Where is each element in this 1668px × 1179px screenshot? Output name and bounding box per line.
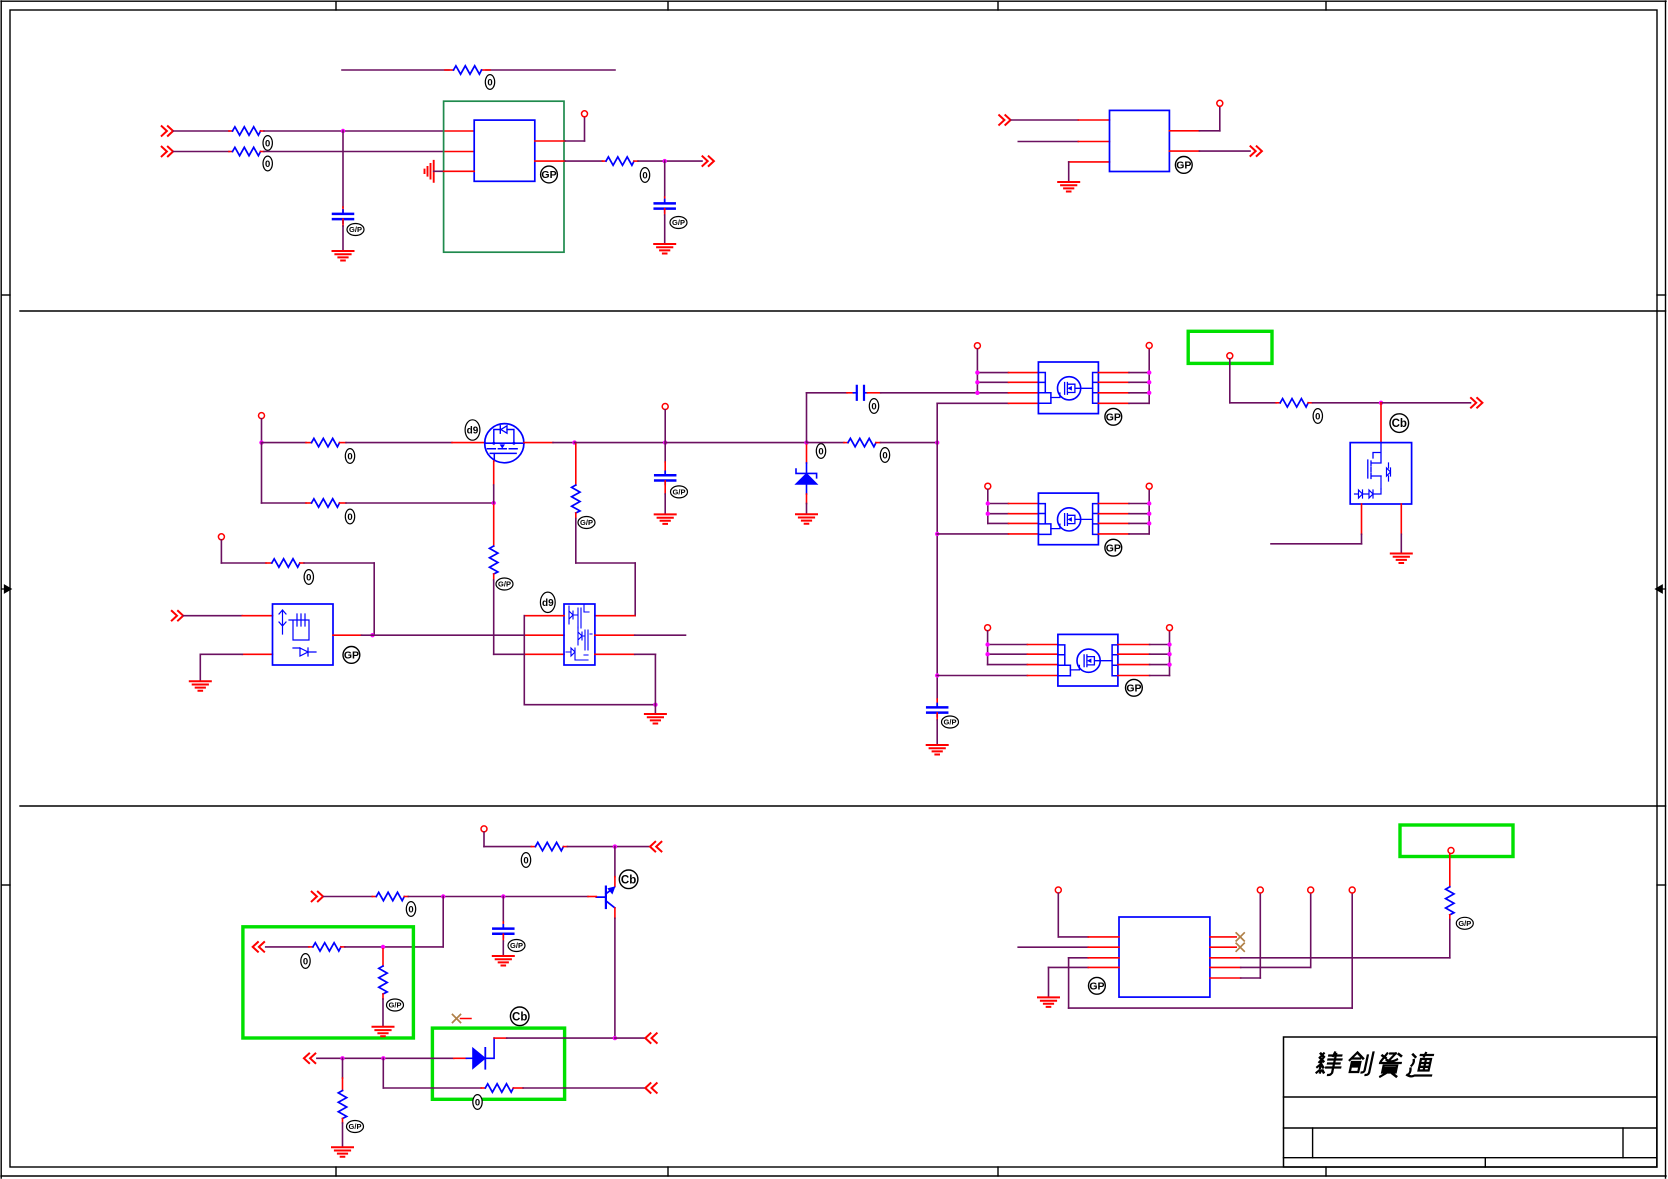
terminal T12	[1227, 353, 1233, 359]
wire node T to port P12	[615, 1037, 644, 1039]
wire U8 pin2 to ground	[200, 654, 272, 680]
wire node F down to C3	[664, 443, 666, 475]
junction U6 R3	[1147, 521, 1151, 525]
wire U9 pin4 stub right	[595, 634, 686, 636]
ground GND9	[1391, 554, 1412, 564]
junction bus-U7	[935, 673, 939, 677]
junction U5 L1	[975, 370, 979, 374]
wire U11 R3 to R18	[1210, 957, 1450, 959]
label D2 Cb	[510, 1007, 529, 1026]
resistor R4	[606, 157, 634, 165]
port P10	[253, 942, 264, 952]
junction U7 R2	[1167, 652, 1171, 656]
label R18 G/P	[1456, 917, 1473, 929]
wire T12 to R11	[1230, 359, 1280, 403]
resistor R7	[490, 546, 498, 574]
label R1 value	[485, 75, 494, 90]
pin stubs U7 left	[1027, 645, 1058, 665]
pin stubs U5 left	[1009, 373, 1039, 393]
ground GND13	[1038, 997, 1059, 1007]
wire R9 to node H	[876, 442, 937, 444]
pin stubs U7 right	[1118, 645, 1150, 676]
junction node A	[341, 129, 345, 133]
wire T5 column left U5	[977, 349, 1008, 393]
terminal T5	[974, 343, 980, 349]
resistor R10	[272, 559, 300, 567]
terminal T1	[582, 111, 588, 117]
junction U6 R2	[1147, 512, 1151, 516]
terminal T15	[1349, 887, 1355, 893]
highlight box H4	[1400, 825, 1513, 857]
junction U7 R3	[1167, 662, 1171, 666]
wire P6 to U8 pin1	[184, 615, 273, 617]
resistor R11	[1280, 399, 1308, 407]
wire node A down	[342, 131, 344, 214]
terminal T3	[259, 413, 265, 419]
wire T3 down to node C	[261, 419, 263, 443]
terminal T6	[1146, 343, 1152, 349]
wire node S down to R16	[383, 1058, 485, 1088]
terminal T18	[1448, 848, 1454, 854]
wire U8 out to node J	[333, 634, 373, 636]
ground GND7	[190, 681, 211, 691]
junction U5 R3	[1147, 391, 1151, 395]
junction U7 L1	[985, 642, 989, 646]
wire R7 down to U4 pin3	[494, 574, 564, 654]
label R16 value	[473, 1095, 482, 1110]
ground GND6	[927, 745, 948, 755]
courtyard box around U1	[444, 101, 564, 252]
wire Q1 drain to node E	[524, 442, 575, 444]
wire P11 to diode D2	[317, 1057, 467, 1059]
wire node D down to R7	[493, 505, 495, 546]
wire D1 to ground	[806, 494, 808, 513]
wire U1 outB to R4	[535, 160, 606, 162]
port P7 output	[1471, 398, 1482, 408]
resistor R6	[312, 499, 340, 507]
junction U7 R1	[1167, 642, 1171, 646]
wire U11 R4 to terminal	[1210, 893, 1311, 967]
label R13 value	[406, 902, 415, 917]
pin stubs U6 right	[1098, 504, 1129, 534]
junction node N	[441, 894, 445, 898]
resistor R9	[848, 438, 876, 446]
port P5 output	[1251, 146, 1262, 156]
terminal T10	[1167, 625, 1173, 631]
junction node E	[572, 440, 576, 444]
label R5 value	[345, 449, 354, 464]
junction node D	[492, 501, 496, 505]
pin U11 R2 no-connect	[1210, 943, 1244, 951]
junction node G	[804, 440, 808, 444]
terminal T14	[1055, 887, 1061, 893]
label C2 G/P	[670, 217, 687, 229]
wire C3 to ground	[664, 481, 666, 513]
IC U8 load switch	[273, 604, 334, 665]
label C4 value	[869, 399, 878, 414]
IC U2	[1110, 110, 1170, 171]
wire T11 to R10	[221, 540, 271, 563]
port P8	[650, 842, 661, 852]
no-connect cross	[453, 1015, 472, 1023]
wire C6 to ground	[502, 934, 504, 955]
resistor R14	[313, 943, 341, 951]
ground GND3	[1058, 182, 1079, 192]
wire bus to C5	[936, 699, 938, 707]
wire node C down	[261, 443, 263, 503]
label R2 value	[263, 136, 272, 151]
label R10 value	[304, 570, 313, 585]
label C3 G/P	[671, 486, 688, 498]
wire node P down to R15	[382, 949, 384, 966]
wire node B down to C2	[664, 161, 666, 203]
wire node J long to right	[373, 634, 565, 636]
wire U9 pin1 wrap to ground	[524, 616, 655, 705]
wire D2 cathode to node T	[494, 1037, 615, 1039]
label C6 G/P	[508, 940, 525, 952]
ground GND1	[333, 251, 354, 261]
IC U1	[474, 120, 535, 181]
wire U6 right column	[1129, 489, 1149, 534]
junction node T	[613, 1036, 617, 1040]
ground GND2	[654, 244, 675, 254]
terminal T17	[1257, 887, 1263, 893]
label U1 GP	[541, 166, 558, 183]
wire node C to R5	[262, 442, 312, 444]
ground GND5	[796, 514, 817, 524]
wire node N down into box	[383, 897, 443, 947]
label U6 GP	[1105, 539, 1122, 556]
wire R5 to Q1 gate rail	[340, 442, 486, 444]
company name text	[1315, 1053, 1436, 1077]
resistor R18	[1446, 887, 1454, 915]
wire stub to U2 pin2	[1018, 141, 1109, 143]
junction U6 L1	[986, 501, 990, 505]
wire C5 to ground	[936, 713, 938, 744]
wire R15 to ground	[382, 994, 384, 1026]
wire R8 to U4 pin6	[576, 513, 635, 616]
terminal T11	[218, 534, 224, 540]
terminal T8	[1146, 483, 1152, 489]
label Q2 Cb	[619, 870, 638, 889]
capacitor C2	[655, 200, 675, 213]
zener diode D1	[796, 445, 818, 494]
junction node J	[370, 633, 374, 637]
junction node H	[935, 440, 939, 444]
label U5 GP	[1105, 408, 1122, 425]
wire P9 to R13	[324, 896, 377, 898]
wire node E down to R8	[575, 443, 576, 485]
wire U2 pin3 to ground	[1069, 162, 1110, 181]
wire T9 column left U7	[988, 631, 1028, 665]
junction U7 L2	[985, 652, 989, 656]
label U7 GP	[1126, 679, 1143, 696]
ground GND12	[332, 1147, 353, 1157]
wire C4 to opto U5 pin3	[867, 392, 977, 394]
capacitor C4	[853, 386, 867, 400]
pin stubs U5 right	[1098, 373, 1129, 404]
opto relay U5	[1038, 362, 1098, 414]
port P11	[304, 1054, 315, 1064]
port P9 input	[312, 892, 323, 902]
resistor R13	[376, 892, 404, 900]
wire R12 to node M	[563, 846, 649, 848]
resistor R8	[572, 485, 580, 513]
wire R14 to node P	[341, 946, 383, 948]
junction node Q	[340, 1056, 344, 1060]
title block	[1284, 1037, 1657, 1167]
label U9 designator	[540, 592, 555, 612]
wire node L to port P7	[1381, 402, 1471, 404]
label R8 G/P	[578, 517, 595, 529]
capacitor C6	[493, 925, 513, 938]
junction node L	[1379, 401, 1383, 405]
resistor R15	[379, 966, 387, 994]
wire node Q down to R17	[342, 1058, 344, 1090]
wire node G up to C4	[807, 393, 854, 443]
junction bus-U6	[935, 532, 939, 536]
port P12	[645, 1033, 656, 1043]
highlight box H3	[432, 1028, 564, 1099]
wire R4 to port P3	[634, 160, 702, 162]
label U2 GP	[1175, 157, 1192, 174]
junction U5 L3	[975, 391, 979, 395]
wire U10 pinA down left	[1271, 504, 1362, 544]
wire node F to node G	[665, 442, 806, 444]
junction U5 L2	[975, 380, 979, 384]
wire to R6	[262, 502, 312, 504]
wire net N1 top	[342, 69, 615, 71]
wire node K to ground	[654, 705, 656, 713]
wire U7 right column	[1150, 631, 1170, 676]
terminal T13	[481, 826, 487, 832]
pin U11 R1 no-connect	[1210, 933, 1244, 941]
port P6 input	[172, 611, 183, 621]
label R14 value	[301, 954, 310, 969]
wire P2 to R3	[174, 151, 233, 153]
wire U11 R5 to terminal	[1210, 893, 1260, 978]
highlight box H1	[1188, 331, 1272, 363]
wire R13 to Q2 base	[404, 896, 596, 898]
junction U6 L2	[986, 512, 990, 516]
label R9 value	[880, 448, 889, 463]
terminal T4	[662, 404, 668, 410]
wire bus to U6 pin4	[937, 533, 1038, 535]
resistor R17	[338, 1091, 346, 1119]
wire T7 column left U6	[988, 489, 1009, 523]
opto relay U6	[1038, 493, 1098, 545]
wire node L down to U10	[1380, 403, 1382, 443]
wire Q1 source down to node D	[493, 461, 495, 503]
opto relay U7	[1058, 634, 1118, 686]
wire R2 to U1 pin1	[261, 130, 475, 132]
label D1 value	[816, 444, 825, 459]
terminal T9	[985, 625, 991, 631]
junction node M	[613, 844, 617, 848]
port P4 input	[999, 115, 1010, 125]
terminal T16	[1308, 887, 1314, 893]
wire R11 to node L	[1308, 402, 1381, 404]
label U8 GP	[343, 647, 360, 664]
ground GND11	[373, 1027, 394, 1037]
wire Q2 emitter down	[614, 908, 616, 1038]
label R7 G/P	[496, 578, 513, 590]
wire R10 to node J	[300, 563, 374, 635]
junction U6 R1	[1147, 501, 1151, 505]
junction node O	[501, 894, 505, 898]
junction node K	[653, 703, 657, 707]
IC U9 dual MOSFET	[564, 604, 595, 665]
capacitor C5	[927, 704, 947, 717]
wire R17 to ground	[342, 1119, 344, 1147]
resistor R3	[233, 147, 261, 155]
resistor R1	[454, 66, 482, 74]
IC U10 MOSFET switch	[1350, 443, 1411, 504]
wire node O down to C6	[502, 897, 504, 929]
diode D2	[466, 1038, 494, 1069]
wire U2 outB to port P5	[1169, 150, 1250, 152]
junction node S	[381, 1056, 385, 1060]
wire R18 down to U11 R3 net	[1449, 915, 1451, 958]
wire U9 pin5 down to node K	[595, 654, 656, 704]
wire U11 pin3 wrap	[1069, 893, 1353, 1008]
label R3 value	[263, 156, 272, 171]
label Q1 designator	[465, 420, 480, 440]
wire U11 pin4 to ground	[1049, 967, 1120, 996]
wire T18 to R18	[1449, 854, 1451, 887]
wire gndarrow to U1 pin3	[434, 170, 475, 172]
label R6 value	[345, 509, 354, 524]
label U10 Cb	[1390, 414, 1409, 433]
junction node F	[663, 440, 667, 444]
wire P10 to R14	[266, 946, 313, 948]
capacitor C1	[333, 210, 353, 223]
ground GND10	[493, 956, 514, 966]
wire U1 outA to terminal	[535, 117, 585, 141]
wire P1 to R2	[174, 130, 233, 132]
label R11 value	[1313, 409, 1322, 424]
resistor R2	[233, 127, 261, 135]
label C5 G/P	[942, 716, 959, 728]
wire node M down to Q2	[614, 847, 616, 887]
ground GND4	[655, 514, 676, 524]
resistor R12	[535, 842, 563, 850]
ground GND8	[645, 714, 666, 724]
wire bus node H down	[936, 443, 938, 699]
wire U5 right column	[1129, 349, 1149, 404]
label R12 value	[521, 853, 530, 868]
highlight box H2	[243, 927, 414, 1038]
wire node G to R9	[807, 442, 849, 444]
port P2 input	[162, 147, 173, 157]
wire R3 to U1 pin2	[261, 151, 475, 153]
wire U2 outA to terminal	[1169, 107, 1219, 131]
pin stubs U6 left	[1009, 504, 1039, 524]
label U11 GP	[1089, 977, 1106, 994]
junction U5 R2	[1147, 380, 1151, 384]
label C1 G/P	[347, 224, 364, 236]
wire R6 to node D	[340, 502, 494, 504]
terminal T2	[1217, 100, 1223, 106]
wire T14 to U11 pin1	[1058, 893, 1119, 937]
wire C2 to ground	[664, 209, 666, 243]
resistor R5	[312, 438, 340, 446]
transistor Q2	[596, 886, 615, 908]
terminal T7	[985, 483, 991, 489]
wire bus node H up to U5 pin4	[937, 403, 1038, 442]
port P13	[645, 1083, 656, 1093]
wire T13 to R12	[484, 832, 535, 847]
label R17 G/P	[347, 1121, 364, 1133]
wire C1 to ground	[342, 219, 344, 250]
junction node P	[381, 945, 385, 949]
junction node B	[663, 159, 667, 163]
wire stub U11 pin2	[1018, 946, 1119, 948]
port P3 output	[703, 156, 714, 166]
resistor R16	[485, 1084, 513, 1092]
IC U11	[1119, 917, 1210, 997]
signal ground arrow U1 pin3	[425, 161, 434, 182]
wire node E to node F	[575, 442, 666, 444]
label R4 value	[640, 168, 649, 183]
transistor Q1 power MOSFET	[485, 424, 524, 463]
wire bus to U7 pin4	[937, 675, 1058, 677]
wire R16 to port P13	[513, 1087, 644, 1089]
junction node C	[259, 440, 263, 444]
label R15 G/P	[387, 999, 404, 1011]
port P1 input	[162, 126, 173, 136]
wire P4 to U2 pin1	[1011, 119, 1109, 121]
junction U5 R1	[1147, 370, 1151, 374]
wire T4 to node F	[664, 410, 666, 443]
capacitor C3	[655, 471, 675, 484]
wire U10 pinB to ground	[1400, 504, 1402, 553]
